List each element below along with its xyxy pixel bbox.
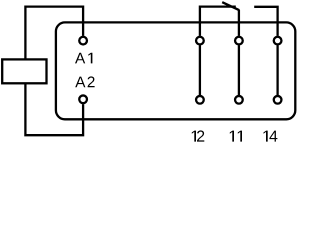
wire NC contact arm from terminal 12 [200, 7, 236, 36]
wire coil bottom to terminal A2 [25, 83, 83, 135]
terminal circle 14 bottom [274, 96, 282, 104]
label A1 [75, 53, 92, 64]
label A2 [75, 76, 94, 87]
wire coil top to terminal A1 [25, 7, 83, 60]
label 14 [264, 131, 278, 142]
label 11 [230, 131, 242, 142]
terminal circle A1 [79, 37, 87, 45]
wire contact 11 through-link [238, 45, 240, 95]
label 12 [192, 130, 205, 141]
terminal circle A2 [79, 95, 87, 103]
coil K1 [2, 59, 46, 83]
wire contact 12 through-link [199, 45, 201, 95]
switch blade [222, 2, 239, 10]
terminal circle 11 bottom [235, 96, 243, 104]
wire NO contact arm to terminal 14 [254, 7, 277, 36]
relay body outline [56, 22, 295, 119]
terminal circle 12 top [196, 37, 204, 45]
terminal circle 14 top [274, 37, 282, 45]
terminal circle 12 bottom [196, 96, 204, 104]
wire contact 14 through-link [276, 45, 278, 95]
wire common pole stub terminal 11 [238, 10, 240, 36]
terminal circle 11 top [235, 37, 243, 45]
